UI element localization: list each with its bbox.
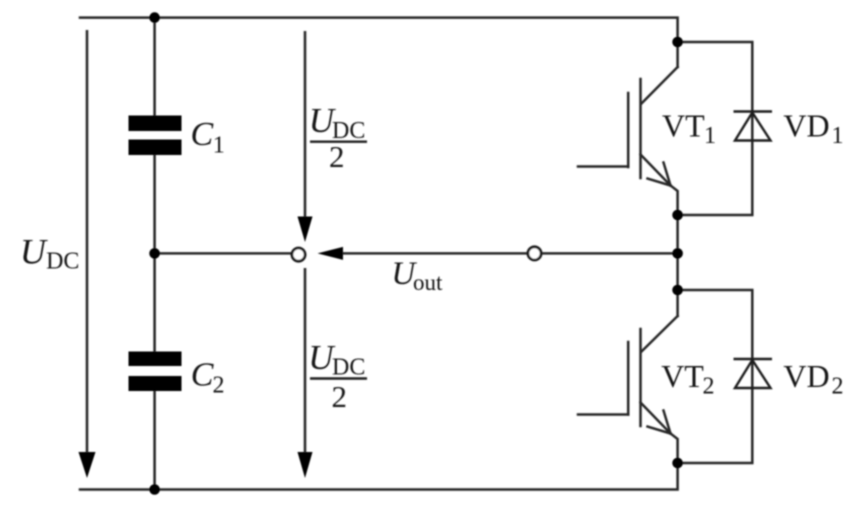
svg-text:1: 1 [832, 123, 844, 149]
wire node B to phase leg [542, 252, 678, 255]
annotation arrow upper U_DC/2 [298, 31, 313, 242]
capacitor C2 plates [129, 352, 182, 392]
svg-text:DC: DC [46, 249, 79, 275]
annotation arrow U_DC [79, 30, 96, 478]
transistor Q2 (IGBT VT2) [578, 316, 678, 463]
wire phase leg middle [676, 215, 679, 316]
svg-text:U: U [20, 232, 48, 272]
svg-text:2: 2 [329, 139, 345, 174]
wire capacitor branch middle [153, 155, 156, 351]
wire bottom rail [80, 463, 678, 490]
annotation arrowhead U_out [318, 247, 344, 260]
diode VD1 symbol [734, 112, 773, 141]
svg-text:VT: VT [661, 358, 704, 394]
label U_out [391, 256, 443, 295]
label fraction upper U_DC/2 [309, 101, 367, 174]
svg-text:VD: VD [783, 108, 829, 144]
svg-text:VT: VT [662, 108, 705, 144]
wire capacitor branch lower [153, 391, 156, 490]
junction bottom rail / capacitor branch [149, 484, 160, 495]
diode VD2 loop wire [678, 290, 753, 463]
wire top rail [80, 18, 678, 67]
node B open circle [528, 247, 541, 260]
svg-text:C: C [191, 357, 214, 394]
svg-text:2: 2 [832, 374, 844, 400]
svg-text:2: 2 [213, 373, 225, 399]
label VT1 [662, 108, 716, 150]
capacitor C1 plates [129, 116, 182, 156]
svg-text:2: 2 [703, 374, 715, 400]
junction VT1 collector / VD1 cathode [672, 37, 683, 48]
label VD2 [783, 358, 843, 400]
junction midpoint / capacitor branch [149, 248, 160, 259]
junction VT2 emitter / VD2 anode [672, 458, 683, 469]
junction top rail / capacitor branch [149, 12, 160, 23]
svg-text:DC: DC [332, 355, 365, 381]
svg-text:C: C [191, 116, 214, 153]
wire output arrow segment [338, 252, 528, 255]
node A open circle [292, 248, 305, 261]
transistor Q1 (IGBT VT1) [578, 67, 678, 215]
svg-text:1: 1 [213, 133, 225, 159]
svg-text:1: 1 [704, 123, 716, 149]
junction VT2 collector / VD2 cathode [672, 285, 683, 296]
wire midpoint to node A [155, 252, 292, 255]
label U_DC [20, 232, 80, 275]
svg-text:VD: VD [783, 358, 829, 394]
diode VD1 loop wire [678, 42, 753, 215]
label C2 [191, 357, 225, 399]
label C1 [191, 116, 225, 159]
label VD1 [783, 108, 843, 150]
junction phase leg output [672, 248, 683, 259]
svg-text:out: out [413, 270, 443, 295]
diode VD2 symbol [734, 359, 773, 388]
label fraction lower U_DC/2 [308, 338, 367, 414]
annotation arrow lower U_DC/2 [298, 268, 313, 478]
junction VT1 emitter / VD1 anode [672, 210, 683, 221]
label VT2 [661, 358, 714, 400]
svg-text:2: 2 [332, 379, 348, 414]
wire capacitor branch upper [153, 18, 156, 115]
